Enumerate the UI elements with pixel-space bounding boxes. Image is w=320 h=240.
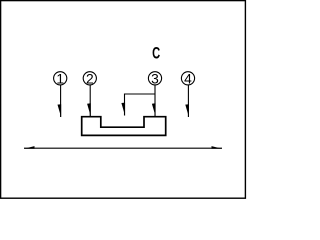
dimension arrowhead right bbox=[212, 146, 223, 149]
terminal mark 3 bbox=[148, 71, 161, 86]
leader arrow 1 bbox=[58, 85, 62, 117]
terminal mark 1 bbox=[54, 71, 67, 86]
terminal mark 4 bbox=[181, 71, 194, 86]
svg-text:3: 3 bbox=[151, 71, 159, 86]
dimension line bbox=[24, 147, 222, 149]
leader arrow 3 (vertical to right tab) bbox=[152, 85, 156, 116]
leader arrow 4 bbox=[185, 85, 189, 117]
leader arrow 3 branch (to recess) bbox=[121, 94, 155, 116]
label C bbox=[152, 43, 160, 62]
svg-text:2: 2 bbox=[86, 71, 94, 86]
svg-text:4: 4 bbox=[184, 71, 192, 86]
leader arrow 2 bbox=[87, 85, 91, 116]
part outline (stepped body) bbox=[82, 117, 166, 136]
border frame bbox=[1, 1, 246, 199]
dimension arrowhead left bbox=[24, 146, 35, 149]
terminal mark 2 bbox=[83, 71, 96, 86]
svg-text:1: 1 bbox=[56, 71, 64, 86]
svg-text:C: C bbox=[152, 43, 160, 62]
